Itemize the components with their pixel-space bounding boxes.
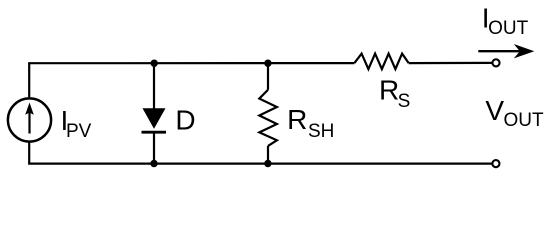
- svg-text:R: R: [379, 75, 399, 106]
- svg-text:OUT: OUT: [504, 110, 545, 131]
- svg-text:OUT: OUT: [488, 18, 528, 39]
- svg-text:V: V: [485, 95, 504, 126]
- svg-text:PV: PV: [66, 121, 92, 142]
- svg-text:D: D: [175, 104, 195, 135]
- svg-text:SH: SH: [308, 121, 334, 142]
- svg-text:R: R: [287, 104, 307, 135]
- svg-text:S: S: [398, 91, 411, 112]
